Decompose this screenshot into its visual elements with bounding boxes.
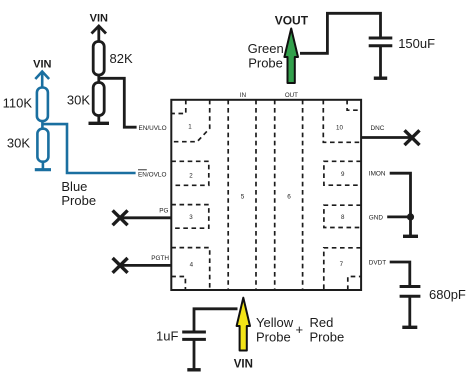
label Red Probe <box>310 315 345 345</box>
wire DNC to no-connect <box>361 136 414 139</box>
wire EN/UVLO from 82K/30K junction <box>99 78 137 127</box>
IC internal dashed line (IN strip right) <box>255 100 257 290</box>
svg-text:EN/UVLO: EN/UVLO <box>139 125 167 132</box>
no-connect X (PGTH) <box>113 258 128 273</box>
svg-text:10: 10 <box>336 125 343 132</box>
label Yellow Probe <box>256 315 294 345</box>
IC internal dashed line (OUT strip right) <box>302 100 304 290</box>
wire EN/OVLO (blue) from 110K/30K junction <box>42 124 135 173</box>
svg-text:9: 9 <box>341 171 345 178</box>
resistor R 110K (blue) <box>37 88 48 130</box>
svg-text:VOUT: VOUT <box>275 14 309 28</box>
IC U1 body outline <box>171 100 361 290</box>
pin 10 pad outline <box>323 100 361 143</box>
ground bar (680pF) <box>402 326 417 329</box>
svg-text:EN/OVLO: EN/OVLO <box>138 172 166 179</box>
svg-text:DNC: DNC <box>371 125 385 132</box>
pin 10 corner notch <box>347 100 361 110</box>
svg-text:Red: Red <box>310 315 334 330</box>
junction dot (GND node) <box>407 213 414 220</box>
pin 2 pad outline <box>171 161 209 185</box>
ground bar (black divider) <box>89 122 110 125</box>
resistor R 30K (black) <box>93 83 104 123</box>
label Blue Probe <box>61 179 96 208</box>
pin 4 corner notch <box>171 277 185 291</box>
ground bar (150uF) <box>374 76 387 79</box>
ground bar (GND) <box>403 235 418 238</box>
svg-text:110K: 110K <box>3 96 33 111</box>
svg-text:5: 5 <box>241 194 245 201</box>
ground bar (blue divider) <box>35 168 51 171</box>
svg-text:30K: 30K <box>7 136 30 151</box>
svg-text:+: + <box>296 322 304 337</box>
wire IMON to GND net <box>390 173 411 217</box>
power VIN (blue divider) <box>33 59 51 89</box>
svg-text:Probe: Probe <box>248 56 283 71</box>
wire DVDT to 680pF <box>390 262 410 285</box>
power VIN (top black divider) <box>90 13 108 43</box>
svg-text:8: 8 <box>341 214 345 221</box>
resistor R 30K (blue) <box>37 129 48 169</box>
yellow probe arrow (VIN) <box>237 298 250 351</box>
IC internal dashed line (OUT strip left) <box>274 100 276 290</box>
svg-text:Blue: Blue <box>61 179 87 194</box>
wire GND <box>387 217 410 235</box>
wire PG to no-connect <box>120 216 171 219</box>
svg-text:680pF: 680pF <box>429 287 466 302</box>
capacitor C 150uF <box>369 38 393 77</box>
svg-text:VIN: VIN <box>90 13 108 25</box>
svg-text:7: 7 <box>340 261 344 268</box>
pin 1 pad outline (with chamfer) <box>171 100 209 142</box>
pin 9 pad outline <box>324 161 361 185</box>
pin 4 pad outline <box>171 248 209 290</box>
svg-text:150uF: 150uF <box>398 36 435 51</box>
svg-text:VIN: VIN <box>234 358 253 370</box>
node EN/OVLO label with overbar <box>138 170 166 179</box>
svg-text:82K: 82K <box>110 51 133 66</box>
svg-text:IMON: IMON <box>369 171 386 178</box>
pin 7 corner notch <box>348 277 361 291</box>
green probe arrow (VOUT) <box>284 29 298 84</box>
svg-text:Probe: Probe <box>256 330 291 345</box>
svg-text:PG: PG <box>159 208 168 215</box>
svg-text:1uF: 1uF <box>156 329 178 344</box>
wire PGTH to no-connect <box>120 264 171 267</box>
svg-text:4: 4 <box>190 262 194 269</box>
no-connect X (DNC) <box>405 130 420 145</box>
svg-text:VIN: VIN <box>33 59 51 71</box>
pin 1 corner notch <box>171 100 186 114</box>
label Green Probe <box>248 41 284 70</box>
svg-text:Probe: Probe <box>61 193 96 208</box>
svg-text:2: 2 <box>189 172 193 179</box>
resistor R 82K <box>93 42 104 83</box>
wire VOUT to 150uF <box>300 13 381 53</box>
pin 3 pad outline <box>171 205 209 229</box>
pin 8 pad outline <box>324 205 361 227</box>
capacitor C 1uF <box>182 332 206 369</box>
IC internal dashed line (IN strip left) <box>227 100 229 290</box>
svg-text:Green: Green <box>248 41 284 56</box>
svg-text:Yellow: Yellow <box>256 315 294 330</box>
no-connect X (PG) <box>113 210 128 225</box>
ground bar (1uF) <box>187 368 200 371</box>
svg-text:1: 1 <box>188 124 192 131</box>
svg-text:PGTH: PGTH <box>151 255 169 262</box>
svg-text:6: 6 <box>287 194 291 201</box>
svg-text:3: 3 <box>189 214 193 221</box>
svg-text:Probe: Probe <box>310 330 345 345</box>
svg-text:IN: IN <box>240 92 246 99</box>
svg-text:DVDT: DVDT <box>369 260 386 267</box>
svg-text:GND: GND <box>369 214 384 221</box>
svg-text:OUT: OUT <box>285 92 298 99</box>
wire VIN input to 1uF <box>194 309 238 332</box>
pin 7 pad outline <box>324 248 361 290</box>
capacitor C 680pF <box>400 287 421 327</box>
svg-text:30K: 30K <box>67 93 90 108</box>
